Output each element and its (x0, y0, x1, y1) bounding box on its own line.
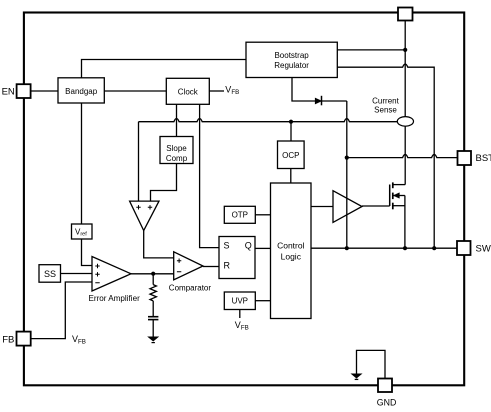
wire summing comparator output to comparator non-inverting input (144, 231, 174, 258)
wire Bandgap bottom to Vref (81, 103, 83, 224)
wire driver to MOSFET gate (362, 205, 390, 207)
svg-text:Regulator: Regulator (274, 61, 309, 70)
block Control Logic (271, 183, 312, 319)
op-amp error amplifier (92, 257, 131, 292)
wire Bandgap top to Bootstrap Regulator input (82, 60, 247, 78)
svg-text:Q: Q (245, 241, 252, 251)
wire capacitor to ground (152, 320, 154, 337)
wire Clock to latch S input (200, 104, 219, 247)
block OCP (278, 141, 305, 169)
svg-text:OTP: OTP (232, 211, 248, 220)
wire OTP to Control Logic (255, 214, 270, 216)
wire Clock to Slope Comp (176, 104, 178, 136)
wire diode to BST rail and SW net (322, 101, 347, 248)
pin SW (457, 241, 471, 255)
svg-text:Comparator: Comparator (169, 284, 212, 293)
svg-text:Logic: Logic (281, 251, 302, 261)
svg-text:Clock: Clock (178, 87, 199, 96)
wire Bootstrap Regulator top output (337, 49, 405, 51)
wire Clock output stub to VFB label (209, 90, 224, 92)
MOSFET body arrow (393, 193, 399, 199)
capacitor compensation (148, 316, 158, 318)
wire Vref to error amplifier input 1 (82, 239, 93, 266)
svg-text:Bootstrap: Bootstrap (274, 51, 309, 60)
wire current sense to summing comparator input (138, 122, 140, 201)
wire Bootstrap Regulator bottom output to diode (292, 78, 315, 102)
diode bootstrap (315, 98, 321, 104)
pin BST (458, 151, 472, 165)
wire UVP to Control Logic (255, 300, 270, 302)
block Slope Comp (160, 137, 193, 164)
svg-text:GND: GND (377, 398, 397, 408)
junction bootstrap rail / SW net (432, 246, 436, 250)
pin FB (17, 332, 31, 346)
block Vref (72, 224, 93, 239)
block Clock (166, 78, 209, 104)
gate driver U-drv (333, 191, 362, 223)
latch SR flip-flop (219, 237, 255, 279)
wire top pin to current sense and MOSFET drain (404, 21, 406, 185)
wire SS to error amplifier input 2 (61, 273, 93, 275)
wire BST line with hops (347, 154, 458, 157)
junction diode output on BST line (345, 156, 349, 160)
wire UVP VFB stub (239, 310, 241, 319)
wire resistor to capacitor (152, 301, 154, 316)
svg-text:Current: Current (372, 96, 399, 105)
junction MOSFET source / SW net (403, 246, 407, 250)
current sense element (397, 117, 413, 127)
junction bootstrap top output on VIN rail (403, 48, 407, 52)
wire SW net from Control Logic to SW pin (311, 247, 458, 249)
pin GND (378, 379, 392, 393)
svg-text:BST: BST (476, 153, 491, 164)
comparator PWM (174, 252, 203, 280)
block OTP (224, 206, 255, 223)
svg-text:EN: EN (2, 86, 15, 97)
transistor M1 power MOSFET (390, 182, 406, 248)
svg-text:Bandgap: Bandgap (65, 87, 98, 96)
block Bandgap (58, 78, 104, 103)
wire EA output to resistor (152, 274, 154, 285)
resistor compensation (150, 285, 156, 301)
svg-text:SS: SS (44, 269, 56, 279)
wire EN to Bandgap (31, 90, 58, 92)
svg-text:Error Amplifier: Error Amplifier (89, 294, 141, 303)
wire GND pin internal ground (357, 350, 386, 378)
svg-text:R: R (224, 260, 231, 270)
wire Control Logic to gate driver (311, 206, 333, 208)
svg-text:Sense: Sense (374, 106, 397, 115)
svg-text:S: S (224, 241, 230, 251)
svg-text:SW: SW (476, 244, 491, 255)
wire sense line to OCP (290, 122, 292, 141)
ground (internal, near GND pin) (351, 374, 361, 378)
svg-text:Comp: Comp (166, 154, 188, 163)
wire error amplifier output to comparator inverting input (131, 273, 174, 275)
ground (compensation) (148, 337, 158, 341)
svg-text:OCP: OCP (282, 151, 299, 160)
wire Bandgap to Clock (104, 90, 166, 92)
wire Slope Comp output to summing comparator input (151, 164, 177, 202)
junction diode rail / SW net (345, 246, 349, 250)
svg-text:Control: Control (277, 240, 305, 250)
wire latch Q output to Control Logic (255, 247, 271, 249)
wire current sense line with hops (139, 119, 398, 122)
svg-text:FB: FB (2, 334, 14, 345)
block Bootstrap Regulator (246, 42, 337, 77)
svg-text:UVP: UVP (232, 297, 248, 306)
wire OCP to Control Logic (290, 169, 292, 184)
pin EN (17, 84, 31, 98)
junction OCP tap on current sense line (289, 120, 293, 124)
block UVP (224, 292, 255, 310)
summing comparator (current + slope) (130, 201, 159, 230)
svg-text:Slope: Slope (166, 144, 187, 153)
wire FB pin to VFB node and error amplifier inverting input (31, 282, 92, 339)
block SS soft start (39, 265, 61, 283)
junction EA output / compensation branch (151, 272, 155, 276)
wire comparator output to latch R input (203, 266, 219, 268)
pin VIN (top, unlabeled) (398, 8, 413, 21)
wire Bootstrap Regulator lower output to SW net (337, 64, 434, 248)
